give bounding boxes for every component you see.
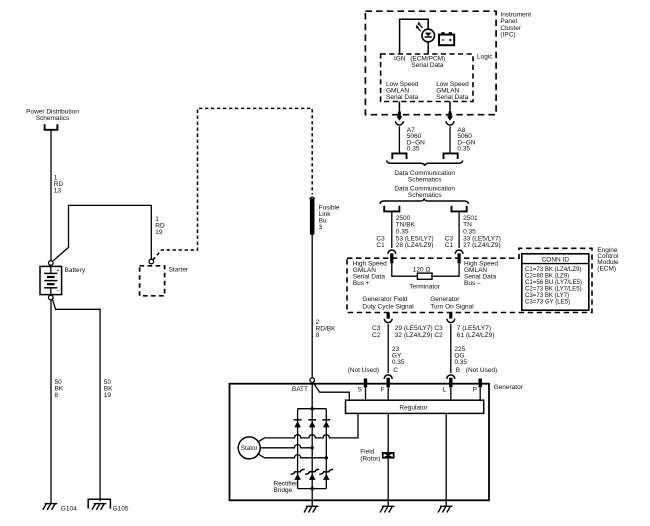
terminal S <box>357 379 367 394</box>
wire: battery negative to G104, 50 BK 8 <box>50 300 52 504</box>
svg-text:Bus +: Bus + <box>353 280 370 287</box>
svg-text:(Not Used): (Not Used) <box>466 367 497 374</box>
svg-text:Schematics: Schematics <box>408 176 442 183</box>
off-page destination bracket (A7) <box>392 153 406 159</box>
label: 29 (LE5/LY7) / 32 (LZ4/LZ9) <box>395 325 433 339</box>
stator <box>238 437 260 459</box>
label: 7 (LE5/LY7) / 61 (LZ4/LZ9) <box>457 325 495 339</box>
svg-text:Bus –: Bus – <box>464 280 481 287</box>
svg-text:C: C <box>393 367 398 374</box>
IPC connector pin B (arrow + cup) <box>446 111 454 125</box>
wire: BATT to regulator sense <box>313 382 349 400</box>
label: wire 50 BK 8 <box>55 379 64 399</box>
label: Field (Rotor) <box>360 449 380 463</box>
label: IGN (ECM/PCM) Serial Data <box>394 56 445 70</box>
label: Generator Field Duty Cycle Signal <box>362 296 414 310</box>
svg-text:Turn On Signal: Turn On Signal <box>430 304 474 311</box>
wire: rectifier column 2 <box>311 409 313 489</box>
label: wire 50 BK 19 <box>104 379 113 399</box>
junction: BATT output <box>311 407 314 410</box>
svg-text:32 (LZ4/LZ9): 32 (LZ4/LZ9) <box>395 332 433 339</box>
engine control module box <box>347 248 592 312</box>
wire: P terminal to regulator <box>479 387 481 400</box>
fusible link Bu 3 <box>310 201 315 234</box>
svg-text:Starter: Starter <box>169 267 189 274</box>
svg-text:8: 8 <box>316 332 320 339</box>
brace: from data communication schematics <box>380 198 468 204</box>
svg-text:Regulator: Regulator <box>399 405 428 412</box>
label: pins C3 C2 (right) <box>434 325 443 339</box>
label: pins C3 C1 (right) <box>445 236 454 250</box>
svg-text:13: 13 <box>54 188 62 195</box>
svg-text:(ECM): (ECM) <box>597 265 616 272</box>
svg-text:3: 3 <box>319 224 323 231</box>
ground: rectifier <box>304 506 319 512</box>
svg-text:(Not Used): (Not Used) <box>348 367 379 374</box>
wire: field rotor to ground <box>387 459 389 507</box>
label: Low Speed GMLAN Serial Data (left) <box>386 81 419 101</box>
wire: rectifier bottom bus <box>298 488 327 490</box>
svg-text:F: F <box>381 386 385 393</box>
label: pins C3 C2 (left) <box>372 325 381 339</box>
generator box <box>230 384 490 501</box>
svg-text:Bridge: Bridge <box>274 487 293 494</box>
battery telltale icon <box>439 32 454 45</box>
brace: to data communication schematics <box>387 160 463 166</box>
svg-text:Battery: Battery <box>65 267 86 274</box>
wire: low speed GMLAN B (logic to IPC edge) <box>449 102 451 112</box>
svg-text:G104: G104 <box>61 505 77 512</box>
svg-text:C2: C2 <box>434 332 443 339</box>
wire: rectifier to ground <box>311 489 313 507</box>
svg-text:Logic: Logic <box>477 54 493 61</box>
wire: fusible link to generator BATT, 2 RD/BK 8 <box>311 235 313 378</box>
svg-text:G105: G105 <box>113 505 129 512</box>
svg-text:C3=73 GY (LE5): C3=73 GY (LE5) <box>525 298 570 305</box>
svg-text:Schematics: Schematics <box>36 115 70 122</box>
wire: L terminal to regulator <box>450 387 452 400</box>
wire: regulator to ground <box>445 413 447 506</box>
svg-text:28 (LZ4/LZ9): 28 (LZ4/LZ9) <box>396 242 434 249</box>
label: wire 1 RD 19 <box>155 216 165 236</box>
wire: F terminal to regulator <box>387 387 389 400</box>
svg-text:(IPC): (IPC) <box>500 32 515 39</box>
label: Low Speed GMLAN Serial Data (right) <box>436 81 469 101</box>
wire: rectifier top bus <box>298 408 327 410</box>
svg-text:CONN ID: CONN ID <box>542 256 570 263</box>
svg-text:61 (LZ4/LZ9): 61 (LZ4/LZ9) <box>457 332 495 339</box>
svg-text:Schematics: Schematics <box>408 192 442 199</box>
wire: BATT to rectifier output bus <box>311 383 313 409</box>
wire: rectifier column 1 <box>297 409 299 489</box>
diode: rectifier lower 2 <box>305 469 319 474</box>
svg-text:C1: C1 <box>445 242 454 249</box>
wire: battery positive feed, 1 RD 13 <box>50 130 52 261</box>
wire: circuit 2501 TN <box>458 211 460 248</box>
label: wire 1 RD 13 <box>54 175 64 195</box>
diode: rectifier upper 3 <box>322 419 330 421</box>
svg-text:0.35: 0.35 <box>454 359 467 366</box>
wire: lamp to logic box <box>427 42 429 54</box>
svg-text:P: P <box>473 386 477 393</box>
wire: low speed GMLAN A (logic to IPC edge) <box>398 102 400 112</box>
generator connector B <box>447 375 455 379</box>
label: 225 OG 0.35 <box>454 346 467 366</box>
ground: field rotor <box>380 506 395 512</box>
label: pins C3 C1 (left) <box>376 236 385 250</box>
junction: phase 2 to column 2 <box>311 446 314 449</box>
junction: rectifier bottom <box>311 487 314 490</box>
label: Instrument Panel Cluster (IPC) <box>500 11 531 38</box>
svg-text:Generator: Generator <box>430 296 460 303</box>
svg-text:27 (LZ4/LZ9): 27 (LZ4/LZ9) <box>463 242 501 249</box>
svg-text:BATT: BATT <box>292 386 308 393</box>
diode: rectifier lower 3 <box>319 469 333 474</box>
label: Fusible Link Bu 3 <box>319 204 340 231</box>
wire: stator phase 1 (sense to regulator) <box>258 413 359 442</box>
svg-text:(Rotor): (Rotor) <box>360 455 380 462</box>
ground G105 (bracketed) <box>88 499 129 512</box>
ground: regulator <box>438 506 453 512</box>
wire: rectifier column 3 <box>325 409 327 489</box>
label: Power Distribution Schematics <box>26 108 79 122</box>
node: battery positive terminal <box>49 261 54 266</box>
regulator box <box>346 400 484 413</box>
terminal P <box>473 379 482 394</box>
wire: stator phase 2 <box>260 445 312 448</box>
label: wire 2 RD/BK 8 <box>316 319 337 339</box>
svg-text:C2: C2 <box>372 332 381 339</box>
ECM connector (turn on signal exit) <box>447 313 455 323</box>
ECM connector (2500 entry) <box>388 250 396 263</box>
off-page destination bracket (A8) <box>444 153 458 159</box>
label: 23 GY 0.35 <box>392 346 405 366</box>
svg-text:19: 19 <box>104 392 112 399</box>
label: Engine Control Module (ECM) <box>597 247 619 273</box>
ECM connector (2501 entry) <box>455 250 463 263</box>
svg-text:C1: C1 <box>376 242 385 249</box>
wire: battery positive to starter, 1 RD 19 <box>53 205 152 261</box>
node: battery negative terminal <box>49 295 54 300</box>
wire: field rotor feed <box>387 413 389 452</box>
diode: rectifier upper 2 <box>308 419 316 421</box>
label: Data Communication Schematics (destination) <box>394 170 455 183</box>
label: Rectifier Bridge <box>274 480 299 493</box>
CONN ID table <box>522 254 589 310</box>
svg-text:Generator Field: Generator Field <box>362 296 408 303</box>
svg-text:0.35: 0.35 <box>392 359 405 366</box>
svg-text:S: S <box>357 386 362 393</box>
wire: indicator lamp loop <box>400 19 429 54</box>
ECM connector (field duty cycle exit) <box>384 313 392 323</box>
ground G104 <box>43 504 58 510</box>
svg-text:Serial Data: Serial Data <box>411 62 444 69</box>
node: starter battery terminal <box>149 259 154 264</box>
wire: circuit 5060 from A7 <box>398 126 400 153</box>
svg-text:Stator: Stator <box>241 445 258 452</box>
label: High Speed GMLAN Serial Data Bus + <box>353 261 387 288</box>
label: 33 (LE5/LY7) / 27 (LZ4/LZ9) <box>463 236 501 250</box>
label: 2501 TN 0.35 <box>463 215 478 235</box>
svg-text:Generator: Generator <box>494 384 524 391</box>
off-page source bracket (circuit 2500) <box>384 206 399 212</box>
IPC connector pin A (arrow + cup) <box>396 111 404 125</box>
wire: circuit 225 OG <box>450 324 452 373</box>
svg-text:Terminator: Terminator <box>409 284 441 291</box>
label: Data Communication Schematics (source) <box>394 185 455 198</box>
wire: circuit 2500 TN/BK <box>391 211 393 248</box>
svg-text:0.35: 0.35 <box>457 146 470 153</box>
wire: battery negative to G105, 50 BK 19 <box>53 299 101 501</box>
svg-text:120 Ω: 120 Ω <box>413 266 431 273</box>
label: 2500 TN/BK 0.35 <box>396 215 416 235</box>
instrument panel cluster box <box>365 11 496 115</box>
field rotor winding <box>382 452 395 459</box>
label: High Speed GMLAN Serial Data Bus - <box>464 261 498 288</box>
node: BATT terminal <box>310 378 315 383</box>
wire: terminator bus <box>392 263 418 276</box>
svg-text:B: B <box>456 367 460 374</box>
wire: circuit 23 GY <box>387 324 389 373</box>
svg-text:Serial Data: Serial Data <box>386 94 419 101</box>
svg-text:Duty Cycle Signal: Duty Cycle Signal <box>362 304 414 311</box>
svg-text:0.35: 0.35 <box>396 228 409 235</box>
svg-text:L: L <box>443 386 447 393</box>
resistor: 120 ohm terminator <box>417 273 432 279</box>
label: Generator Turn On Signal <box>430 296 474 310</box>
battery <box>40 266 62 294</box>
wire: S terminal to regulator <box>365 387 367 400</box>
svg-text:IGN: IGN <box>394 56 406 63</box>
svg-text:0.35: 0.35 <box>463 228 476 235</box>
wire: stator phase 3 <box>258 454 327 458</box>
starter <box>140 266 165 296</box>
junction: phase 3 to column 3 <box>325 456 328 459</box>
diode: rectifier lower 1 <box>291 469 305 474</box>
label: A7 5060 D-GN 0.35 <box>407 127 425 153</box>
label: 53 (LE5/LY7) / 28 (LZ4/LZ9) <box>396 236 434 250</box>
label: A8 5060 D-GN 0.35 <box>457 127 475 153</box>
dashed wire: starter to fusible link <box>153 108 312 259</box>
off-page source bracket (power distribution) <box>45 124 58 130</box>
svg-text:Serial Data: Serial Data <box>436 94 469 101</box>
wire: circuit 5060 from A8 <box>449 126 451 153</box>
charge indicator lamp (LED) <box>416 22 435 42</box>
generator connector C <box>384 375 392 379</box>
logic box <box>381 54 473 102</box>
diode: rectifier upper 1 <box>294 419 302 421</box>
svg-text:0.35: 0.35 <box>407 146 420 153</box>
off-page source bracket (circuit 2501) <box>452 206 467 212</box>
fusible link terminal hook <box>310 197 314 199</box>
terminal F <box>381 378 390 394</box>
terminal L <box>443 378 453 394</box>
svg-text:19: 19 <box>155 229 163 236</box>
svg-text:8: 8 <box>55 392 59 399</box>
